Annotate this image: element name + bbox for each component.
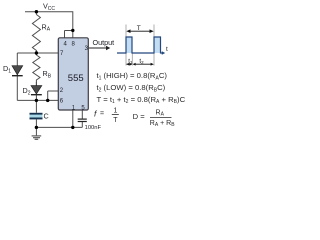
- svg-text:D =: D =: [133, 112, 146, 121]
- svg-text:C: C: [44, 112, 49, 121]
- svg-text:T: T: [137, 25, 141, 32]
- svg-text:T = t1 + t2 = 0.8(RA + RB)C: T = t1 + t2 = 0.8(RA + RB)C: [97, 95, 186, 105]
- svg-text:t: t: [166, 46, 168, 53]
- svg-text:t2: t2: [139, 58, 144, 65]
- svg-text:555: 555: [68, 73, 84, 84]
- svg-text:T: T: [113, 117, 118, 124]
- svg-text:Output: Output: [93, 38, 115, 47]
- svg-text:t1: t1: [128, 58, 133, 65]
- svg-text:1: 1: [114, 108, 118, 115]
- svg-text:=: =: [100, 111, 104, 118]
- svg-text:100nF: 100nF: [85, 125, 102, 131]
